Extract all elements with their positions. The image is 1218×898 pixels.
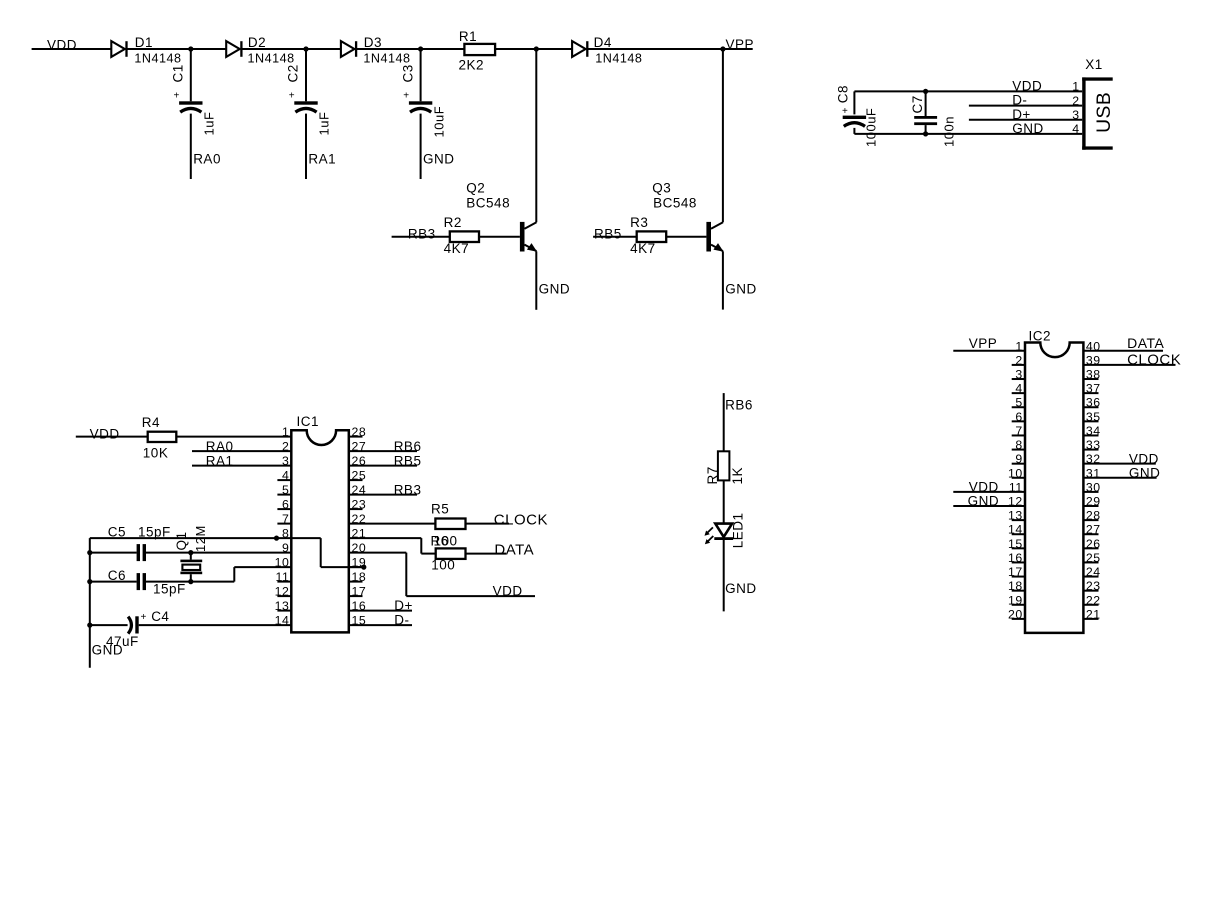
svg-text:R7: R7 (705, 466, 720, 484)
svg-text:GND: GND (968, 494, 1000, 509)
junction IC1 pin 19 (361, 565, 366, 570)
svg-text:RA1: RA1 (308, 152, 336, 167)
svg-text:29: 29 (1086, 495, 1101, 509)
IC2 pin 9 stub (1012, 463, 1025, 465)
IC1 pin 17 stub (349, 595, 363, 597)
wire RA1 to IC1 pin 3 (192, 465, 291, 467)
svg-text:VDD: VDD (493, 583, 523, 598)
svg-text:RB3: RB3 (394, 483, 422, 498)
svg-text:GND: GND (1012, 121, 1043, 136)
LED LED1 (705, 524, 734, 545)
wire jog down to R6 (420, 538, 422, 554)
svg-text:15: 15 (352, 614, 367, 628)
resistor R2 (450, 231, 479, 242)
wire node to C7 (925, 91, 927, 116)
svg-text:X1: X1 (1085, 57, 1103, 72)
capacitor C7 (914, 116, 937, 125)
svg-text:RB5: RB5 (594, 226, 622, 241)
IC1 pin 18 stub (349, 581, 363, 583)
svg-text:+: + (174, 91, 180, 102)
svg-text:11: 11 (276, 570, 290, 584)
svg-text:3: 3 (282, 454, 289, 468)
svg-text:10uF: 10uF (431, 106, 446, 138)
svg-text:20: 20 (352, 541, 367, 555)
IC1 pin 11 stub (277, 581, 291, 583)
junction rail/C4 (87, 623, 92, 628)
svg-text:28: 28 (1086, 509, 1101, 523)
svg-text:36: 36 (1086, 396, 1101, 410)
wire C8 to GND line (853, 128, 855, 134)
wire C3 to GND (420, 114, 422, 179)
wire GND rail to IC1 pin 8 and interior jog (90, 537, 321, 539)
svg-text:D-: D- (394, 613, 409, 628)
resistor R6 (436, 548, 466, 559)
svg-text:27: 27 (1086, 523, 1101, 537)
IC1 pin 12 stub (277, 595, 291, 597)
wire node to C2 (305, 49, 307, 101)
IC2 pin 13 stub (1012, 519, 1025, 521)
GND rail (left of IC1) (89, 538, 91, 668)
junction on IC1 pin 8 wire (274, 536, 279, 541)
svg-text:R1: R1 (459, 29, 477, 44)
wire GND rail to C5 (90, 552, 137, 554)
wire C6 to jog (146, 581, 234, 583)
node crystal top junction (188, 550, 193, 555)
capacitor C6 (137, 573, 146, 590)
svg-text:13: 13 (275, 599, 290, 613)
svg-text:RB5: RB5 (394, 454, 422, 469)
svg-text:15: 15 (1008, 537, 1023, 551)
IC2 pin 28 stub (1083, 519, 1098, 521)
svg-text:C8: C8 (836, 85, 851, 103)
IC2 pin 4 stub (1012, 392, 1025, 394)
svg-text:16: 16 (352, 599, 367, 613)
wire D3 to R1 (357, 48, 464, 50)
svg-text:Q1: Q1 (174, 531, 189, 550)
svg-text:1: 1 (282, 425, 289, 439)
wire IC2 pin 39 to CLOCK (1083, 364, 1175, 366)
wire D+ to X1 pin 3 (969, 119, 1082, 121)
resistor R7 (718, 451, 730, 480)
IC2 pin 21 stub (1083, 618, 1098, 620)
wire to VDD label (406, 595, 535, 597)
wire node to C1 (190, 49, 192, 101)
svg-text:33: 33 (1086, 438, 1101, 452)
wire D2 to D3 (242, 48, 341, 50)
svg-text:GND: GND (92, 643, 124, 658)
svg-text:+: + (141, 612, 147, 623)
wire X1 VDD line to C8 (853, 91, 855, 114)
resistor R1 (464, 44, 495, 55)
wire GND rail to C4 (90, 624, 128, 626)
wire IC1 pin 21 to jog (349, 537, 422, 539)
svg-text:1uF: 1uF (317, 112, 332, 136)
wire IC2 pin 31 to GND (1083, 477, 1156, 479)
svg-text:26: 26 (1086, 537, 1101, 551)
IC2 pin 33 stub (1083, 449, 1098, 451)
wire IC1 pin 15 to D- (349, 624, 412, 626)
svg-text:VDD: VDD (1012, 79, 1042, 94)
transistor Q3 (706, 222, 723, 252)
IC1 pin 7 stub (277, 523, 291, 525)
IC1 pin 13 stub (277, 610, 291, 612)
svg-text:38: 38 (1086, 368, 1101, 382)
svg-text:20: 20 (1008, 607, 1023, 621)
capacitor C8 (843, 116, 866, 127)
svg-text:5: 5 (282, 483, 289, 497)
svg-text:D2: D2 (248, 35, 266, 50)
wire VPP to IC2 pin 1 (953, 350, 1025, 352)
wire pin 8 net vertical (through IC1) (320, 538, 322, 567)
wire Q3 emitter to GND (722, 251, 724, 309)
IC1 pin 19 stub (349, 566, 364, 568)
capacitor C3 (409, 101, 432, 112)
wire IC1 pin 27 to RB6 (349, 450, 417, 452)
svg-text:21: 21 (1086, 607, 1101, 621)
IC2 pin 3 stub (1012, 378, 1025, 380)
svg-text:D4: D4 (594, 35, 612, 50)
svg-text:12: 12 (275, 585, 290, 599)
svg-text:RB3: RB3 (408, 226, 436, 241)
wire C8 to X1 pin 1 (VDD) (854, 90, 1082, 92)
svg-text:GND: GND (423, 152, 455, 167)
IC1 pin 4 stub (277, 479, 291, 481)
svg-text:18: 18 (352, 570, 367, 584)
svg-text:17: 17 (352, 585, 367, 599)
svg-text:8: 8 (282, 527, 289, 541)
capacitor C5 (137, 544, 146, 561)
svg-text:19: 19 (1008, 593, 1023, 607)
svg-text:12: 12 (1008, 495, 1023, 509)
svg-text:R4: R4 (142, 415, 160, 430)
wire R5 to CLOCK (466, 523, 510, 525)
svg-text:USB: USB (1094, 92, 1115, 133)
IC2 pin 27 stub (1083, 533, 1098, 535)
svg-text:D+: D+ (394, 598, 413, 613)
wire C8 to X1 pin 4 (GND) (854, 133, 1082, 135)
wire C7 to GND line (925, 125, 927, 134)
IC2 pin 37 stub (1083, 392, 1098, 394)
svg-text:18: 18 (1008, 579, 1023, 593)
svg-text:40: 40 (1086, 339, 1101, 353)
svg-text:7: 7 (282, 512, 289, 526)
IC1 pin 23 stub (349, 508, 363, 510)
svg-text:28: 28 (352, 425, 367, 439)
svg-text:1: 1 (1015, 339, 1022, 353)
svg-text:RB6: RB6 (725, 397, 753, 412)
svg-text:C1: C1 (171, 64, 186, 82)
svg-text:15pF: 15pF (153, 582, 186, 597)
svg-text:4K7: 4K7 (630, 241, 656, 256)
svg-text:VDD: VDD (47, 37, 77, 52)
svg-text:37: 37 (1086, 382, 1101, 396)
wire R4 to IC1 pin 1 (176, 436, 291, 438)
node Q2 collector junction (534, 46, 539, 51)
IC2 pin 20 stub (1012, 618, 1025, 620)
wire R7 to LED1 (723, 480, 725, 523)
svg-text:VPP: VPP (969, 336, 998, 351)
svg-text:16: 16 (1008, 551, 1023, 565)
op-amp/MCU IC1 body (291, 430, 349, 632)
svg-text:D3: D3 (364, 35, 382, 50)
wire C4 to IC1 pin 14 (139, 624, 292, 626)
diode D3 (341, 41, 356, 57)
wire GND rail to C6 (90, 581, 137, 583)
wire GND to IC2 pin 12 (953, 505, 1025, 507)
resistor R3 (637, 231, 667, 242)
svg-text:CLOCK: CLOCK (1127, 352, 1181, 369)
wire IC1 pin 22 to R5 (349, 523, 436, 525)
svg-text:23: 23 (1086, 579, 1101, 593)
svg-text:VPP: VPP (726, 37, 755, 52)
wire R3 to Q3 base (666, 236, 706, 238)
IC2 pin 26 stub (1083, 547, 1098, 549)
IC2 pin 15 stub (1012, 547, 1025, 549)
wire R1 to D4 (495, 48, 572, 50)
IC1 pin 28 stub (349, 436, 363, 438)
IC1 pin 25 stub (349, 479, 363, 481)
wire R6 to DATA (466, 553, 507, 555)
transistor Q2 (520, 222, 537, 252)
svg-text:1: 1 (1072, 80, 1079, 94)
svg-text:10K: 10K (143, 446, 169, 461)
wire VDD to R4 (76, 436, 148, 438)
diode D1 (111, 41, 126, 57)
IC2 pin 38 stub (1083, 378, 1098, 380)
svg-text:9: 9 (282, 541, 289, 555)
node C7 bottom junction (923, 131, 928, 136)
USB connector X1 body (1082, 77, 1113, 149)
svg-text:2: 2 (1072, 94, 1079, 108)
wire RB5 to R3 (593, 236, 637, 238)
svg-text:39: 39 (1086, 353, 1101, 367)
svg-text:5: 5 (1015, 396, 1022, 410)
svg-text:26: 26 (352, 454, 367, 468)
svg-text:C4: C4 (151, 609, 169, 624)
wire RA0 to IC1 pin 2 (192, 450, 291, 452)
svg-text:GND: GND (1129, 466, 1161, 481)
svg-text:4K7: 4K7 (444, 241, 470, 256)
wire IC1 pin 20 to jog (349, 552, 407, 554)
IC2 pin 16 stub (1012, 561, 1025, 563)
wire Q3 collector to VPP node (722, 49, 724, 222)
svg-text:C5: C5 (108, 525, 126, 540)
crystal Q1 (180, 560, 202, 575)
wire IC1 pin 16 to D+ (349, 610, 412, 612)
svg-text:IC2: IC2 (1029, 329, 1052, 344)
IC2 pin 34 stub (1083, 434, 1098, 436)
node C7 top junction (923, 89, 928, 94)
svg-text:9: 9 (1015, 452, 1022, 466)
svg-text:19: 19 (352, 556, 367, 570)
svg-text:24: 24 (352, 483, 367, 497)
wire crystal bottom stub (190, 574, 192, 581)
node C1 top junction (188, 46, 193, 51)
svg-text:34: 34 (1086, 424, 1101, 438)
svg-text:6: 6 (1015, 410, 1022, 424)
svg-text:R2: R2 (444, 215, 462, 230)
wire jog to IC1 pin 10 (234, 566, 291, 568)
IC2 pin 7 stub (1012, 434, 1025, 436)
svg-text:C7: C7 (910, 95, 925, 113)
svg-text:17: 17 (1008, 565, 1023, 579)
MCU IC2 body (1025, 343, 1083, 633)
wire C2 to RA1 (305, 114, 307, 179)
svg-text:10: 10 (1008, 466, 1023, 480)
svg-text:+: + (842, 106, 848, 117)
wire node to C3 (420, 49, 422, 101)
svg-text:6: 6 (282, 498, 289, 512)
wire VDD to D1 (32, 48, 112, 50)
wire D1 to D2 (127, 48, 226, 50)
wire IC2 pin 32 to VDD (1083, 463, 1155, 465)
svg-text:BC548: BC548 (466, 196, 510, 211)
svg-text:Q3: Q3 (652, 180, 671, 195)
IC2 pin 6 stub (1012, 420, 1025, 422)
IC2 pin 8 stub (1012, 449, 1025, 451)
svg-text:7: 7 (1015, 424, 1022, 438)
svg-text:13: 13 (1008, 509, 1023, 523)
svg-text:25: 25 (1086, 551, 1101, 565)
IC2 pin 10 stub (1012, 477, 1025, 479)
svg-text:GND: GND (725, 281, 757, 296)
svg-text:23: 23 (352, 498, 367, 512)
node VPP junction (720, 46, 725, 51)
wire RB3 to R2 (392, 236, 450, 238)
svg-text:25: 25 (352, 469, 367, 483)
svg-text:R6: R6 (431, 534, 449, 549)
wire Q2 collector to node (535, 49, 537, 222)
svg-text:1N4148: 1N4148 (595, 51, 642, 65)
svg-text:4: 4 (282, 469, 289, 483)
svg-text:R5: R5 (431, 502, 449, 517)
wire jog up to pin 10 level (233, 567, 235, 582)
svg-text:Q2: Q2 (466, 180, 485, 195)
svg-text:32: 32 (1086, 452, 1101, 466)
svg-text:3: 3 (1072, 108, 1079, 122)
svg-text:15pF: 15pF (138, 525, 171, 540)
node crystal bottom junction (188, 579, 193, 584)
svg-text:VDD: VDD (90, 426, 120, 441)
svg-text:1N4148: 1N4148 (248, 51, 295, 65)
svg-text:GND: GND (725, 581, 757, 596)
svg-text:1uF: 1uF (202, 112, 217, 136)
wire D- to X1 pin 2 (969, 105, 1082, 107)
IC2 pin 5 stub (1012, 406, 1025, 408)
svg-text:+: + (403, 91, 409, 102)
svg-text:D1: D1 (135, 35, 153, 50)
svg-text:2K2: 2K2 (459, 58, 485, 73)
svg-text:14: 14 (275, 614, 290, 628)
svg-text:11: 11 (1009, 480, 1023, 494)
capacitor C1 (179, 101, 202, 112)
IC2 pin 19 stub (1012, 604, 1025, 606)
svg-text:35: 35 (1086, 410, 1101, 424)
IC2 pin 23 stub (1083, 590, 1098, 592)
IC2 pin 35 stub (1083, 420, 1098, 422)
IC2 pin 17 stub (1012, 576, 1025, 578)
svg-text:C6: C6 (108, 568, 126, 583)
svg-text:3: 3 (1015, 368, 1022, 382)
svg-text:R3: R3 (630, 215, 648, 230)
wire jog down to VDD line (405, 553, 407, 597)
svg-text:RB6: RB6 (394, 439, 422, 454)
svg-text:31: 31 (1086, 466, 1101, 480)
wire D4 to VPP (588, 48, 753, 50)
wire LED1 to GND (723, 540, 725, 611)
svg-text:DATA: DATA (1127, 335, 1164, 351)
IC1 pin 5 stub (277, 494, 291, 496)
diode D2 (226, 41, 241, 57)
capacitor C2 (294, 101, 317, 112)
svg-text:10: 10 (275, 556, 290, 570)
svg-text:LED1: LED1 (731, 512, 746, 548)
wire RB6 to R7 (723, 393, 725, 451)
IC2 pin 22 stub (1083, 604, 1098, 606)
svg-text:RA0: RA0 (193, 152, 221, 167)
svg-text:D+: D+ (1012, 107, 1031, 122)
svg-text:4: 4 (1015, 382, 1022, 396)
IC2 pin 24 stub (1083, 576, 1098, 578)
wire pin 8 net to pin 19 (321, 566, 364, 568)
svg-text:8: 8 (1015, 438, 1022, 452)
svg-text:CLOCK: CLOCK (494, 512, 548, 529)
svg-text:4: 4 (1072, 122, 1079, 136)
wire IC1 pin 24 to RB3 (349, 494, 417, 496)
svg-text:C2: C2 (286, 64, 301, 82)
node C3 top junction (418, 46, 423, 51)
IC2 pin 18 stub (1012, 590, 1025, 592)
wire IC1 pin 26 to RB5 (349, 465, 417, 467)
svg-text:C3: C3 (400, 64, 415, 82)
svg-text:+: + (289, 91, 295, 102)
IC1 pin 6 stub (277, 508, 291, 510)
IC2 pin 30 stub (1083, 491, 1098, 493)
svg-text:14: 14 (1008, 523, 1023, 537)
wire Q2 emitter to GND (535, 251, 537, 309)
svg-text:DATA: DATA (494, 542, 534, 559)
IC2 pin 29 stub (1083, 505, 1098, 507)
capacitor C4 (electrolytic) (128, 616, 139, 633)
svg-text:GND: GND (539, 281, 571, 296)
resistor R4 (148, 432, 177, 442)
svg-text:IC1: IC1 (297, 414, 320, 429)
resistor R5 (435, 519, 465, 530)
wire R2 to Q2 base (479, 236, 520, 238)
IC2 pin 25 stub (1083, 561, 1098, 563)
svg-text:2: 2 (1015, 353, 1022, 367)
svg-text:27: 27 (352, 440, 367, 454)
svg-text:30: 30 (1086, 480, 1101, 494)
svg-text:VDD: VDD (1129, 451, 1159, 466)
junction rail/C5 (87, 550, 92, 555)
diode D4 (572, 41, 587, 57)
svg-text:100: 100 (431, 558, 455, 573)
svg-text:21: 21 (352, 527, 367, 541)
wire C5 to IC1 pin 9 (146, 552, 291, 554)
svg-text:RA0: RA0 (206, 439, 234, 454)
svg-text:2: 2 (282, 440, 289, 454)
wire C1 to RA0 (190, 114, 192, 179)
IC2 pin 14 stub (1012, 533, 1025, 535)
IC2 pin 36 stub (1083, 406, 1098, 408)
svg-text:100uF: 100uF (864, 108, 879, 147)
svg-text:100n: 100n (942, 116, 957, 147)
wire jog to R6 (421, 553, 435, 555)
wire VDD to IC2 pin 11 (953, 491, 1025, 493)
wire crystal top stub (190, 553, 192, 560)
svg-text:1N4148: 1N4148 (363, 51, 410, 65)
